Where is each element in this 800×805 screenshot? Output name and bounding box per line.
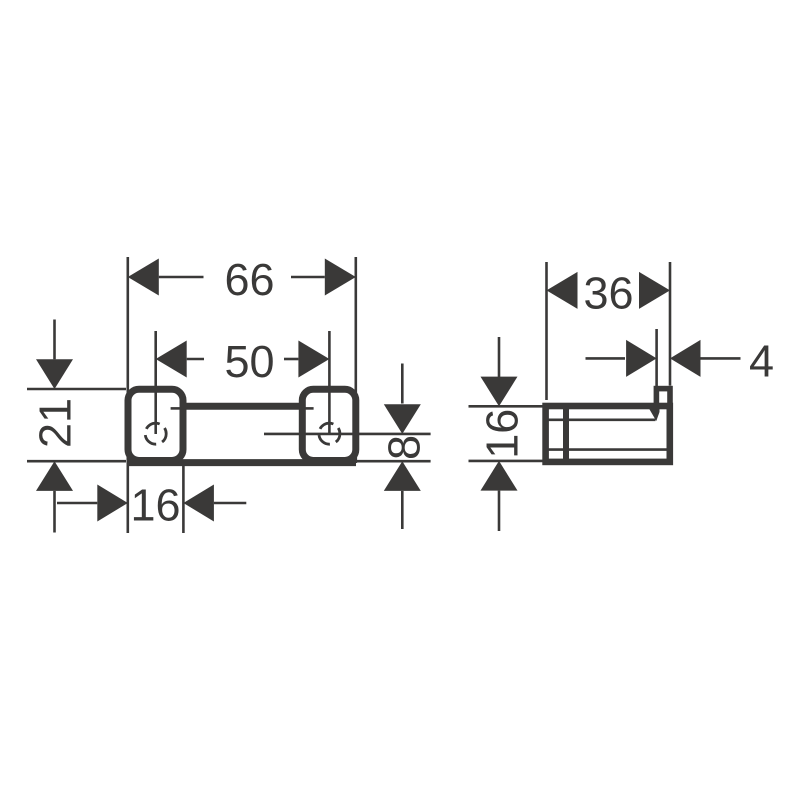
dimension 16 front: left line [57, 502, 97, 505]
dimension 8: bottom extension (y=461.2) [356, 460, 431, 463]
dimension 36: right arrow [639, 272, 670, 309]
dimension 21: lower line [53, 491, 56, 533]
extension line left of 66 (x=127.8) [127, 257, 130, 533]
dimension 4: extension line (x=656.6) [655, 329, 658, 388]
mount plate right (rounded square) [302, 389, 356, 460]
dimension 21: upper line [53, 320, 56, 360]
dimension 21: top extension line (y=389) [27, 388, 126, 391]
extension line right of 36 (x=670) [669, 262, 672, 386]
extension line right of 66 (x=355.8) [354, 257, 357, 463]
dimension 16 side: lower line [498, 491, 501, 531]
dimension 50: right line [284, 358, 298, 361]
svg-text:50: 50 [224, 336, 274, 387]
dimension 8: upper line [401, 364, 404, 404]
hook inner corner wedge [649, 409, 660, 422]
dimension 16 front: right-pointing arrow [97, 485, 128, 522]
dimension 50: left line [187, 358, 204, 361]
svg-text:21: 21 [29, 398, 80, 448]
bar bottom edge (thick) [128, 459, 356, 466]
extension line left of 50 / left hole centerline (x=155.7) [154, 331, 157, 434]
dimension 21: down arrow [36, 359, 73, 389]
dimension 66: left arrow [128, 259, 159, 296]
bar top edge (thick) [182, 403, 304, 410]
dimension 16 side: top extension line (y=406.3) [469, 405, 544, 408]
extension line right of 16 (x=183.4) [182, 460, 185, 533]
dimension 4: left-pointing arrow [670, 340, 701, 377]
svg-text:66: 66 [224, 254, 274, 305]
hook body outline (side view) [546, 406, 670, 462]
svg-text:4: 4 [749, 336, 774, 387]
dimension 66: right arrow [325, 259, 356, 296]
mount plate left (rounded square) [128, 389, 183, 460]
dimension 8: down arrow [384, 404, 421, 434]
wall plate inner edge [563, 406, 569, 462]
svg-text:8: 8 [378, 435, 429, 460]
hook inner bottom line [546, 448, 668, 451]
bar top edge thin stub inside right mount [302, 407, 314, 410]
dimension 16 side: bottom extension line (y=460.9) [469, 460, 544, 463]
svg-text:36: 36 [583, 267, 633, 318]
bar top edge thin stub inside left mount [171, 407, 184, 410]
dimension 36: left arrow [547, 272, 578, 309]
dimension 66: right line [291, 276, 325, 279]
dimension 8: top extension / centerline through right mount (y=433.9) [264, 433, 431, 436]
dimension 21: bottom extension line (y=461.2) [27, 460, 126, 463]
dimension 4: right line [701, 357, 741, 360]
hook lip (top right) [656, 389, 670, 406]
dimension 16 side: upper line [498, 337, 501, 378]
svg-text:16: 16 [476, 409, 527, 459]
hook inner top line [546, 418, 656, 421]
extension line left of 36 (x=546.5) [545, 262, 548, 400]
dimension 66: left line [159, 276, 204, 279]
dimension 4: left line [586, 357, 626, 360]
svg-text:16: 16 [130, 480, 180, 531]
screw hole right (dashed circle) [319, 423, 340, 444]
dimension 16 front: left-pointing arrow [183, 485, 214, 522]
extension line right of 50 / right hole centerline (x=329.4) [328, 331, 331, 434]
dimension 8: lower line [401, 491, 404, 529]
dimension 16 side: up arrow [481, 461, 518, 491]
dimension 8: up arrow [384, 461, 421, 491]
dimension 21: up arrow [36, 461, 73, 491]
dimension 16 front: right line [214, 502, 246, 505]
dimension 50: left arrow [156, 341, 187, 378]
screw hole left (dashed circle) [145, 423, 166, 444]
dimension 16 side: down arrow [481, 377, 518, 407]
dimension 50: right arrow [298, 341, 329, 378]
dimension 4: right-pointing arrow [626, 340, 657, 377]
